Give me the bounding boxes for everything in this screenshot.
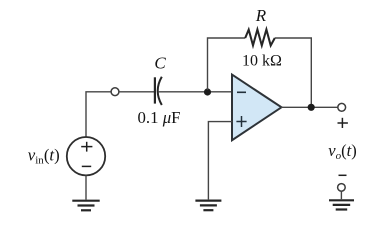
wire: non-inverting input to ground	[208, 122, 232, 200]
op-amp inverting input minus sign	[237, 91, 246, 93]
output minus sign	[339, 174, 347, 176]
svg-text:10 kΩ: 10 kΩ	[242, 53, 282, 70]
capacitor C1 curved plate	[158, 77, 162, 105]
voltage source V1 circle	[67, 137, 105, 175]
ground under voltage source	[72, 201, 99, 211]
node: input terminal open circle	[111, 88, 119, 96]
source plus sign	[81, 142, 92, 152]
wire: terminal to capacitor left plate	[119, 91, 154, 93]
wire: stub from terminal to output ground	[340, 191, 342, 199]
wire: feedback loop up and top rail left	[208, 38, 246, 90]
node: output junction dot	[308, 104, 315, 111]
wire: capacitor to op-amp inverting input	[158, 91, 232, 93]
source minus sign	[82, 165, 91, 167]
node: output terminal open circle	[338, 103, 346, 111]
wire: source bottom to ground	[85, 175, 87, 199]
op-amp non-inverting input plus sign	[236, 116, 246, 127]
svg-text:0.1 μF: 0.1 μF	[138, 108, 181, 127]
wire: top rail right and down to output node	[275, 38, 312, 107]
svg-text:vo(t): vo(t)	[328, 141, 356, 162]
svg-text:R: R	[255, 6, 267, 25]
node: ground terminal open circle	[338, 184, 346, 192]
svg-text:vin(t): vin(t)	[28, 146, 60, 167]
ground under op-amp plus input	[195, 201, 221, 211]
node: junction dot at inverting input	[204, 88, 211, 95]
capacitor C1 straight plate	[154, 77, 156, 103]
resistor R1 zigzag	[245, 30, 275, 46]
wire: op-amp output to output terminal	[281, 106, 338, 108]
svg-text:C: C	[154, 54, 166, 73]
wire: input top from source corner to terminal	[86, 92, 111, 137]
ground at output	[329, 200, 354, 209]
op-amp U1 triangle	[232, 75, 282, 141]
output plus sign	[338, 118, 348, 128]
